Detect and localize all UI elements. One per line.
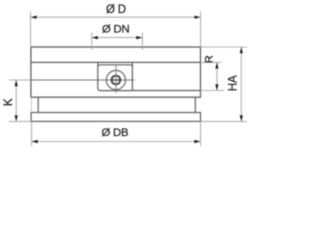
svg-text:HA: HA <box>227 75 240 91</box>
chuck body outline <box>31 47 201 97</box>
dim D left extension <box>30 12 32 48</box>
body internal layer line <box>31 61 201 63</box>
dim HA top extension <box>201 46 247 48</box>
svg-text:Ø DN: Ø DN <box>102 24 129 36</box>
dim HA arrows <box>240 47 243 53</box>
dim DB extensions <box>31 121 33 145</box>
mid section right edge <box>194 97 196 112</box>
base flange <box>31 113 200 122</box>
dim D line <box>31 16 201 18</box>
dim R arrows <box>215 62 218 68</box>
vertical center line <box>115 66 117 93</box>
dim DN line <box>92 37 143 39</box>
dim DN extensions <box>91 33 93 50</box>
R bottom extension <box>201 90 225 92</box>
dim R line <box>216 62 218 90</box>
screw slot <box>111 79 121 81</box>
svg-text:Ø D: Ø D <box>106 4 126 16</box>
mid section left edge <box>37 97 39 112</box>
dim K line <box>15 80 17 121</box>
dim HA line <box>240 47 242 121</box>
svg-text:Ø DB: Ø DB <box>102 127 129 139</box>
dim D arrows <box>31 16 37 19</box>
dim D right extension <box>200 12 202 48</box>
svg-text:R: R <box>204 55 216 63</box>
dim HA bottom extension <box>201 120 247 122</box>
dim DB line <box>32 141 201 143</box>
dim DN arrows <box>92 36 98 39</box>
center axis line (K top extension) <box>9 79 31 81</box>
hub block <box>98 62 133 90</box>
mid section faint left ghost edge <box>30 97 32 112</box>
dim K bottom extension <box>9 120 31 122</box>
dim K arrows <box>15 80 18 86</box>
slide bottom line <box>132 90 200 92</box>
hub outer circle <box>106 70 125 89</box>
dim DB arrows <box>32 140 38 143</box>
screw head circle <box>112 76 121 85</box>
R top extension <box>201 61 222 63</box>
svg-text:K: K <box>1 98 15 106</box>
